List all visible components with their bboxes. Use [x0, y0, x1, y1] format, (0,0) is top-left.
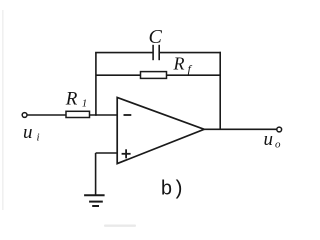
wire top feedback right of C [159, 52, 221, 54]
svg-text:1: 1 [82, 98, 88, 110]
wire right feedback vertical [219, 52, 221, 130]
svg-text:u: u [23, 122, 33, 143]
label R1 [65, 89, 88, 110]
label Rf [173, 53, 193, 76]
wire R1 to inverting input [90, 114, 118, 116]
label ui [23, 122, 40, 144]
label C [149, 26, 163, 48]
svg-text:R: R [65, 89, 78, 110]
svg-text:o: o [275, 139, 281, 151]
scan artifact left edge [2, 10, 4, 210]
wire left feedback vertical [95, 53, 97, 115]
svg-text:b): b) [161, 179, 185, 202]
terminal input ui [22, 113, 27, 118]
resistor R1 [66, 111, 90, 117]
node inverting-input junction [95, 114, 97, 116]
svg-text:u: u [264, 129, 274, 150]
wire Rf branch left segment [96, 74, 141, 76]
wire top feedback left of C [95, 52, 153, 54]
svg-text:i: i [37, 132, 40, 144]
ground [84, 195, 105, 206]
wire Rf branch right segment [167, 74, 222, 76]
resistor Rf [141, 72, 167, 79]
svg-text:R: R [173, 53, 185, 73]
label b) [161, 179, 185, 202]
wire input terminal to R1 [27, 114, 66, 116]
svg-text:C: C [149, 26, 163, 48]
op-amp U1 [117, 98, 204, 164]
label uo [264, 129, 282, 150]
scan artifact bottom smudge [104, 225, 136, 227]
capacitor C [153, 45, 159, 60]
wire non-inverting input to ground [95, 153, 97, 195]
terminal output uo [277, 127, 282, 132]
wire output [204, 128, 277, 130]
svg-text:f: f [188, 62, 193, 76]
pin marker inverting input minus [124, 114, 132, 116]
wire non-inverting input [96, 152, 118, 154]
pin marker non-inverting input plus [122, 149, 131, 158]
